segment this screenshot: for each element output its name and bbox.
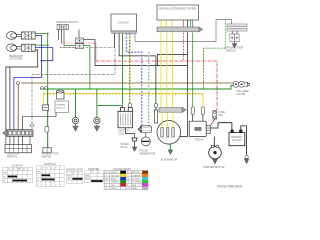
svg-text:P: P [56,167,57,169]
svg-text:BLUE: BLUE [111,179,117,181]
svg-text:FREE: FREE [85,175,89,177]
svg-text:ALTERNATOR: ALTERNATOR [161,158,178,161]
svg-text:12V 4AH: 12V 4AH [232,139,242,142]
svg-text:BL: BL [106,172,108,174]
svg-text:E: E [78,173,79,175]
svg-text:TL: TL [46,167,48,169]
svg-text:IGNITION: IGNITION [12,164,23,167]
svg-text:L: L [60,167,61,169]
svg-text:PINK: PINK [132,185,137,187]
svg-text:SWITCH: SWITCH [42,155,52,158]
svg-text:SWITCH: SWITCH [7,155,17,158]
svg-text:L: L [28,169,29,171]
svg-text:BLACK: BLACK [111,171,118,174]
svg-text:HL: HL [37,180,39,182]
svg-text:E: E [98,172,99,174]
svg-text:ST: ST [91,172,93,174]
svg-text:GRAY: GRAY [132,187,138,190]
svg-text:LIGHTING: LIGHTING [44,163,56,166]
svg-text:SWITCH: SWITCH [56,108,65,110]
svg-text:W: W [106,188,108,190]
svg-text:SWITCH: SWITCH [226,50,236,53]
svg-text:5: 5 [60,184,61,186]
svg-text:ST: ST [23,169,25,171]
svg-text:GREEN: GREEN [111,182,118,184]
svg-text:2: 2 [46,184,47,186]
svg-text:ORANGE: ORANGE [132,174,141,177]
svg-text:4: 4 [56,184,57,186]
svg-text:OFF: OFF [37,171,40,173]
svg-text:WHITE: WHITE [111,188,118,190]
svg-text:BROWN: BROWN [132,172,140,174]
svg-text:HL: HL [42,167,44,169]
svg-text:12V 25/25W: 12V 25/25W [9,58,23,61]
svg-text:YELLOW: YELLOW [111,175,119,177]
svg-text:COIL: COIL [118,133,124,136]
svg-text:RELAY: RELAY [196,138,204,141]
svg-text:CDI UNIT: CDI UNIT [118,22,129,25]
svg-text:LT BLUE: LT BLUE [132,179,140,181]
svg-text:PLUG: PLUG [121,146,128,149]
svg-text:00X3Z-VM6-8100: 00X3Z-VM6-8100 [217,185,242,189]
svg-text:P: P [37,175,38,177]
svg-text:STARTER MOTOR: STARTER MOTOR [203,166,225,169]
svg-text:12V 5W: 12V 5W [236,93,246,96]
svg-text:1: 1 [42,184,43,186]
svg-text:IGNITION SWITCH: IGNITION SWITCH [56,21,78,24]
svg-text:E: E [51,167,52,169]
svg-text:DIMMER: DIMMER [56,105,65,107]
svg-text:OFF: OFF [3,173,6,175]
svg-text:REGULATOR/RECTIFIER: REGULATOR/RECTIFIER [159,7,196,10]
svg-text:15A: 15A [218,114,223,117]
svg-text:OFF: OFF [67,179,70,181]
svg-text:LT GREEN: LT GREEN [132,182,142,184]
svg-text:E: E [13,169,14,171]
svg-text:3: 3 [51,184,52,186]
svg-text:GENERATOR: GENERATOR [140,152,156,155]
svg-text:ST: ST [3,181,5,183]
svg-text:RED: RED [111,185,116,187]
